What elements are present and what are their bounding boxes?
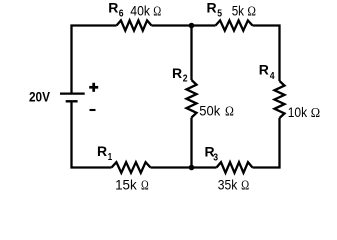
resistor R3 zigzag <box>217 162 253 173</box>
junction node dot (bottom, R1/R3/R2) <box>189 165 195 171</box>
label 20V <box>29 89 51 105</box>
wire: middle branch, top node down to R2 <box>190 26 192 81</box>
wire: bottom node to R1 <box>151 166 192 168</box>
value 50k ohm <box>199 102 234 118</box>
svg-text:Ω: Ω <box>141 177 149 192</box>
svg-text:35k: 35k <box>218 176 238 192</box>
wire: R4 to bottom-right corner to R3 <box>253 118 280 168</box>
junction node dot (top, R6/R5/R2) <box>189 23 195 29</box>
wire: R1 to bottom-left corner up to battery - terminal <box>72 101 112 167</box>
svg-text:R: R <box>259 62 269 78</box>
svg-text:4: 4 <box>270 71 275 82</box>
value 5k ohm <box>232 2 256 18</box>
resistor R2 zigzag <box>187 80 197 118</box>
wire: top-left corner segment (battery + to R6) <box>72 26 117 93</box>
value 15k ohm <box>115 176 149 192</box>
wire: R5 to top-right corner down to R4 <box>253 26 280 82</box>
value 10k ohm <box>288 104 320 120</box>
label R2 <box>172 65 188 85</box>
label R4 <box>259 62 275 82</box>
resistor R4 zigzag <box>275 81 285 118</box>
svg-text:40k: 40k <box>130 3 151 19</box>
label R5 <box>207 0 223 19</box>
svg-text:Ω: Ω <box>311 105 320 120</box>
label R6 <box>108 0 124 19</box>
svg-text:3: 3 <box>213 152 218 163</box>
wire: top node to R5 <box>192 24 216 26</box>
svg-text:Ω: Ω <box>247 3 256 18</box>
label R3 <box>205 144 219 164</box>
polarity plus sign <box>89 83 98 92</box>
svg-text:6: 6 <box>119 8 124 19</box>
svg-text:20V: 20V <box>29 89 51 105</box>
resistor R5 zigzag <box>216 20 253 30</box>
svg-text:2: 2 <box>183 74 188 85</box>
wire: R2 down to bottom node <box>190 118 192 168</box>
svg-text:15k: 15k <box>115 176 138 192</box>
svg-text:R: R <box>172 65 182 81</box>
voltage source V1 short plate (-) <box>66 100 78 102</box>
wire: R6 to top node <box>152 24 192 26</box>
svg-text:10k: 10k <box>288 104 308 120</box>
svg-text:50k: 50k <box>199 102 221 118</box>
svg-text:Ω: Ω <box>225 103 234 118</box>
svg-text:Ω: Ω <box>241 177 249 192</box>
voltage source V1 long plate (+) <box>60 92 85 94</box>
value 40k ohm <box>130 3 161 19</box>
resistor R1 zigzag <box>112 162 151 173</box>
polarity minus sign <box>90 109 96 111</box>
svg-text:5k: 5k <box>232 2 245 18</box>
wire: R3 to bottom node <box>192 166 217 168</box>
label R1 <box>97 143 112 163</box>
svg-text:5: 5 <box>217 8 222 19</box>
svg-text:R: R <box>97 143 107 159</box>
resistor R6 zigzag <box>117 20 152 30</box>
svg-text:R: R <box>108 0 118 16</box>
svg-text:R: R <box>207 0 217 16</box>
svg-text:Ω: Ω <box>153 4 161 19</box>
value 35k ohm <box>218 176 249 192</box>
svg-text:1: 1 <box>108 152 113 163</box>
